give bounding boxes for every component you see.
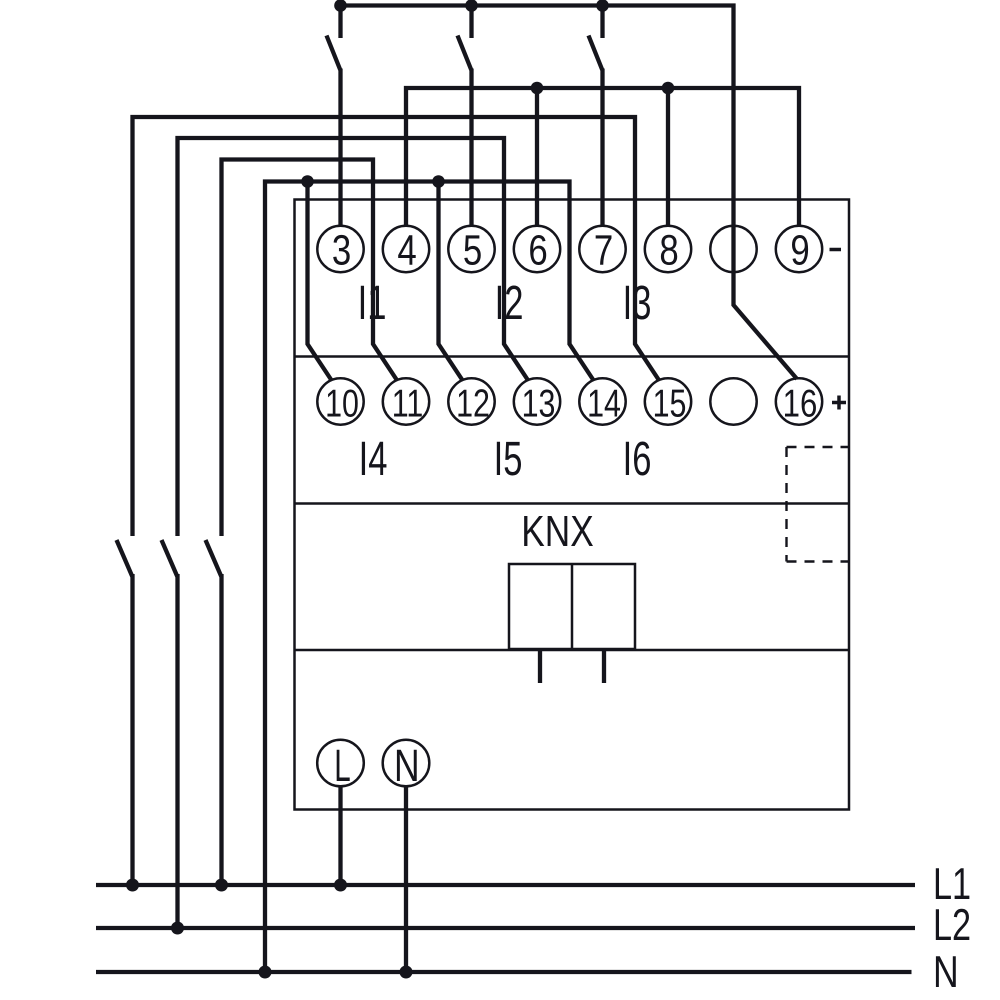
- svg-text:15: 15: [653, 382, 687, 425]
- svg-text:I2: I2: [495, 275, 524, 329]
- svg-text:14: 14: [587, 382, 621, 425]
- svg-text:6: 6: [528, 227, 547, 274]
- svg-text:N: N: [394, 740, 420, 791]
- svg-text:8: 8: [659, 227, 678, 274]
- svg-text:16: 16: [783, 382, 818, 425]
- svg-text:9: 9: [790, 227, 809, 274]
- svg-text:I6: I6: [623, 431, 652, 485]
- svg-text:KNX: KNX: [521, 508, 593, 556]
- svg-text:N: N: [933, 947, 959, 997]
- svg-text:4: 4: [397, 227, 416, 274]
- svg-text:L: L: [334, 741, 350, 792]
- svg-text:5: 5: [463, 227, 482, 274]
- svg-text:7: 7: [594, 227, 613, 274]
- svg-text:10: 10: [325, 382, 359, 425]
- svg-text:L2: L2: [933, 901, 971, 950]
- svg-text:3: 3: [332, 227, 351, 274]
- svg-text:I1: I1: [358, 275, 387, 329]
- svg-text:13: 13: [522, 382, 556, 425]
- svg-text:I5: I5: [494, 431, 523, 485]
- svg-text:11: 11: [392, 382, 424, 425]
- svg-text:I4: I4: [359, 431, 388, 485]
- svg-text:I3: I3: [623, 275, 652, 329]
- svg-text:12: 12: [456, 382, 490, 425]
